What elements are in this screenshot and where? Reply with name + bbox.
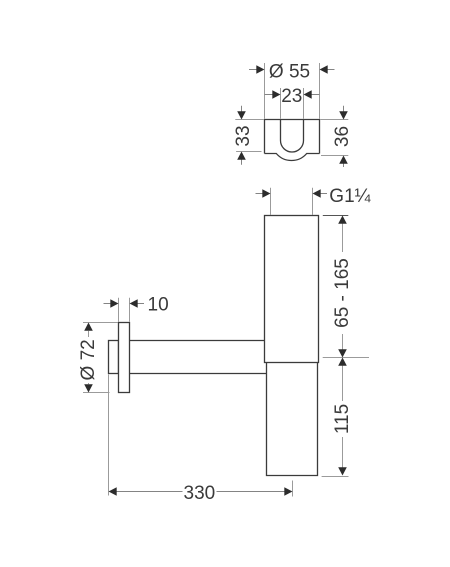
dim Ø72 line [88,331,90,384]
dim 23 leaders [265,94,320,96]
svg-text:330: 330 [184,483,216,504]
dim Ø72 extension lines [83,323,118,393]
svg-text:115: 115 [332,404,353,434]
dim 115 bottom extension line [322,476,349,478]
dim 65-165 lower extension line [323,357,369,359]
dim 330 extension lines [109,375,293,497]
dim Ø55 arrows [256,65,327,74]
dim 330 arrows [109,487,293,496]
svg-text:Ø 55: Ø 55 [269,61,310,82]
dim 115 arrows [338,358,347,476]
svg-text:36: 36 [332,126,353,147]
dim 36 extension lines [320,120,348,156]
dim 65-165 arrows [338,216,347,358]
svg-text:Ø 72: Ø 72 [78,339,99,380]
dim G1¼ extension lines [271,188,313,215]
dim 33 extension lines [235,120,263,152]
wall pipe stub [109,341,119,374]
svg-text:G1¼: G1¼ [329,186,371,207]
dim 36 leaders [343,106,345,167]
escutcheon front view outline [265,120,320,161]
svg-text:33: 33 [233,125,254,146]
horizontal pipe bottom line [130,373,267,375]
dim 36 arrows [339,111,348,163]
dim 10 extension lines [119,298,130,322]
dim 33 arrows [237,111,246,159]
trap bottle body outline [267,363,318,476]
dim Ø55 extension lines [265,63,320,119]
dim 23 extension lines [281,88,304,119]
dim 65-165 top extension line [323,215,349,217]
dim 23 arrows [272,90,311,99]
svg-text:65 - 165: 65 - 165 [332,258,353,328]
dim Ø55 leaders [249,69,335,71]
svg-text:23: 23 [281,86,302,107]
dim G1¼ arrows [262,189,320,198]
horizontal pipe top line [130,340,265,342]
wall escutcheon side view [119,323,130,393]
dim 33 leaders [241,106,243,165]
dim 115 line [342,365,344,468]
dim Ø72 arrows [84,323,93,393]
dim G1¼ leaders [256,193,328,195]
dim 65-165 line [342,223,344,350]
dim 10 arrows [110,299,137,308]
svg-text:10: 10 [148,295,169,316]
dim 10 leaders [104,303,145,305]
dim 330 line [117,491,286,493]
trap upper pipe outline [265,216,319,363]
escutcheon U-cutout [281,120,304,153]
